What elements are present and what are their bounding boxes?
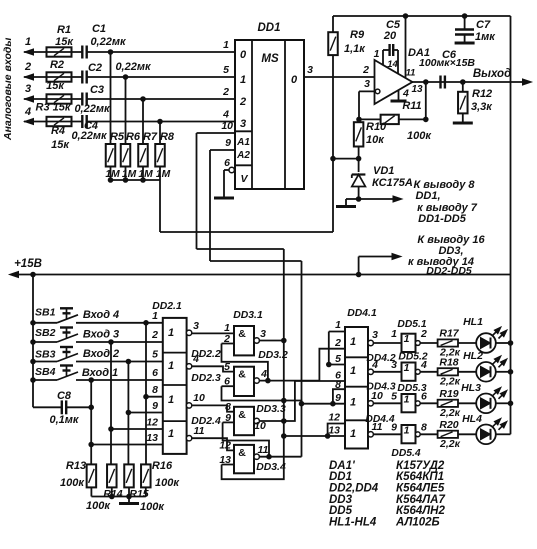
svg-text:3: 3 [25,83,31,95]
svg-text:4: 4 [371,359,378,371]
svg-text:4: 4 [420,359,427,371]
svg-text:R16: R16 [152,460,173,472]
svg-text:V: V [240,173,248,185]
svg-text:6: 6 [152,367,158,379]
svg-text:С7: С7 [476,19,491,31]
svg-text:DD3.2: DD3.2 [258,350,288,361]
svg-text:Вход 1: Вход 1 [82,367,118,379]
svg-text:2: 2 [362,64,369,76]
svg-text:DD1: DD1 [329,471,352,483]
svg-text:100к: 100к [407,130,432,142]
svg-text:1М: 1М [156,169,171,180]
svg-text:А2: А2 [236,150,250,161]
svg-text:11: 11 [372,421,383,433]
svg-text:11: 11 [194,425,205,437]
svg-text:100мк×15В: 100мк×15В [419,57,475,69]
svg-text:Вход 4: Вход 4 [83,309,119,321]
svg-text:5: 5 [391,391,397,403]
svg-text:4: 4 [402,88,409,100]
svg-text:1,1к: 1,1к [344,43,366,55]
svg-text:3: 3 [391,359,397,371]
svg-text:R4: R4 [51,125,65,137]
svg-text:R11: R11 [402,100,421,112]
svg-text:8: 8 [152,384,158,396]
svg-text:Вход 2: Вход 2 [83,348,119,360]
svg-text:4: 4 [192,353,199,365]
svg-text:2,2к: 2,2к [439,375,461,387]
svg-text:10: 10 [193,392,205,404]
svg-text:R8: R8 [160,131,175,143]
svg-text:HL4: HL4 [462,413,482,425]
svg-text:0,1мк: 0,1мк [49,414,79,426]
svg-text:3: 3 [260,328,266,340]
svg-text:1: 1 [152,310,158,322]
svg-text:1: 1 [404,393,410,405]
svg-text:8: 8 [335,379,341,391]
svg-text:R17: R17 [439,328,459,340]
svg-text:4: 4 [24,106,31,118]
svg-text:R9: R9 [350,29,365,41]
svg-text:100к: 100к [140,501,165,513]
svg-text:1: 1 [391,328,397,340]
svg-text:5: 5 [224,361,230,373]
svg-text:0: 0 [240,49,247,61]
svg-text:11: 11 [406,68,416,79]
svg-text:1: 1 [350,428,356,440]
svg-text:1: 1 [168,394,174,406]
svg-text:DD4.1: DD4.1 [347,308,377,319]
svg-text:12: 12 [328,412,340,424]
svg-text:1: 1 [404,333,410,345]
svg-text:0,22мк: 0,22мк [74,103,111,115]
svg-text:3: 3 [193,320,199,332]
svg-text:1: 1 [223,39,229,51]
svg-text:3: 3 [372,329,378,341]
svg-text:5: 5 [335,353,341,365]
svg-text:0,22мк: 0,22мк [115,61,152,73]
svg-text:К564ЛН2: К564ЛН2 [396,505,445,517]
svg-text:1: 1 [335,319,341,331]
svg-text:0,22мк: 0,22мк [90,36,127,48]
svg-text:1: 1 [168,428,174,440]
svg-text:3: 3 [240,118,246,130]
svg-text:1: 1 [240,74,246,86]
svg-text:&: & [238,328,246,340]
svg-text:4: 4 [222,109,229,121]
svg-text:9: 9 [335,392,341,404]
svg-text:R1: R1 [57,24,71,36]
svg-text:HL1: HL1 [463,316,483,328]
svg-text:13: 13 [146,432,158,444]
svg-text:R13: R13 [66,460,86,472]
svg-text:SB4: SB4 [35,366,56,378]
svg-text:0,22мк: 0,22мк [71,130,108,142]
svg-text:10: 10 [221,120,233,132]
svg-text:DD2,DD4: DD2,DD4 [329,483,379,495]
svg-text:DD5: DD5 [329,505,353,517]
svg-text:1: 1 [374,48,380,60]
svg-text:АЛ102Б: АЛ102Б [395,517,440,529]
svg-text:HL2: HL2 [463,350,483,362]
svg-text:3: 3 [364,78,370,90]
svg-text:4: 4 [260,368,267,380]
svg-text:2: 2 [24,61,31,73]
svg-text:HL1-HL4: HL1-HL4 [329,517,377,529]
svg-text:13: 13 [411,84,423,95]
svg-text:Вход 3: Вход 3 [83,329,119,341]
svg-text:1: 1 [168,327,174,339]
svg-text:1: 1 [404,424,410,436]
svg-text:R20: R20 [439,419,458,431]
svg-text:+15В: +15В [14,258,42,270]
svg-text:DD1-DD5: DD1-DD5 [418,213,467,225]
svg-text:1мк: 1мк [475,31,496,43]
svg-text:MS: MS [261,53,279,65]
svg-text:15к: 15к [46,80,65,92]
svg-text:9: 9 [152,400,158,412]
svg-text:2: 2 [222,86,229,98]
svg-text:DD3.3: DD3.3 [256,404,286,415]
svg-text:R14: R14 [103,488,122,500]
svg-text:1: 1 [404,362,410,374]
svg-text:6: 6 [421,391,427,403]
svg-text:10к: 10к [366,134,385,146]
svg-text:&: & [238,369,246,381]
svg-text:R2: R2 [50,59,64,71]
svg-text:R5: R5 [110,131,125,143]
svg-text:20: 20 [383,30,397,42]
svg-text:DD3.4: DD3.4 [256,462,286,473]
svg-text:3: 3 [307,64,313,76]
svg-text:2: 2 [239,96,246,108]
svg-text:100к: 100к [155,477,180,489]
svg-text:R10: R10 [366,121,387,133]
svg-text:3,3к: 3,3к [471,101,493,113]
svg-text:R3 15к: R3 15к [36,102,72,114]
svg-text:R7: R7 [143,131,158,143]
svg-text:С2: С2 [88,62,102,74]
svg-text:DD1,: DD1, [415,190,440,202]
svg-text:9: 9 [225,137,231,149]
svg-text:13: 13 [328,425,340,437]
svg-text:DD5.4: DD5.4 [391,448,420,459]
svg-text:DD2.3: DD2.3 [191,373,221,384]
svg-text:R12: R12 [472,88,492,100]
svg-text:100к: 100к [60,477,85,489]
svg-text:HL3: HL3 [461,382,481,394]
svg-text:10: 10 [371,390,383,402]
svg-text:12: 12 [146,417,158,429]
svg-text:С1: С1 [92,23,106,35]
svg-text:1М: 1М [138,169,153,180]
svg-text:SB1: SB1 [35,307,56,319]
svg-text:15к: 15к [55,36,74,48]
svg-text:1: 1 [350,336,356,348]
svg-text:2: 2 [151,329,158,341]
svg-text:VD1: VD1 [373,165,394,177]
svg-text:1: 1 [168,360,174,372]
svg-text:15к: 15к [51,139,70,151]
svg-text:100к: 100к [86,500,111,512]
svg-text:SB2: SB2 [35,327,56,339]
svg-text:А1: А1 [236,137,250,148]
svg-text:DD3.1: DD3.1 [233,310,263,321]
svg-text:11: 11 [258,444,269,456]
svg-text:2: 2 [334,337,341,349]
svg-text:К564КП1: К564КП1 [396,471,444,483]
svg-text:6: 6 [224,157,230,169]
svg-text:С8: С8 [57,390,72,402]
svg-text:1: 1 [25,36,31,48]
svg-text:5: 5 [152,349,158,361]
svg-text:К564ЛЕ5: К564ЛЕ5 [396,483,445,495]
svg-text:0: 0 [291,74,298,86]
svg-text:Выход: Выход [473,68,511,80]
svg-text:DD1: DD1 [257,22,280,34]
svg-text:14: 14 [387,59,398,70]
svg-text:&: & [238,447,246,459]
svg-text:1: 1 [350,365,356,377]
svg-text:1: 1 [350,397,356,409]
svg-text:С3: С3 [90,84,104,96]
svg-text:2: 2 [420,328,427,340]
svg-text:2,2к: 2,2к [439,407,461,419]
svg-text:8: 8 [421,422,427,434]
svg-text:5: 5 [223,64,229,76]
svg-text:2,2к: 2,2к [439,438,461,450]
svg-text:SB3: SB3 [35,349,56,361]
svg-text:R18: R18 [439,356,458,368]
svg-text:Аналоговые входы: Аналоговые входы [2,38,14,141]
svg-text:R19: R19 [439,388,458,400]
svg-text:R6: R6 [126,131,141,143]
svg-text:9: 9 [391,422,397,434]
svg-text:КС175А: КС175А [372,177,413,189]
svg-text:R15: R15 [129,488,148,500]
svg-text:&: & [238,409,246,421]
